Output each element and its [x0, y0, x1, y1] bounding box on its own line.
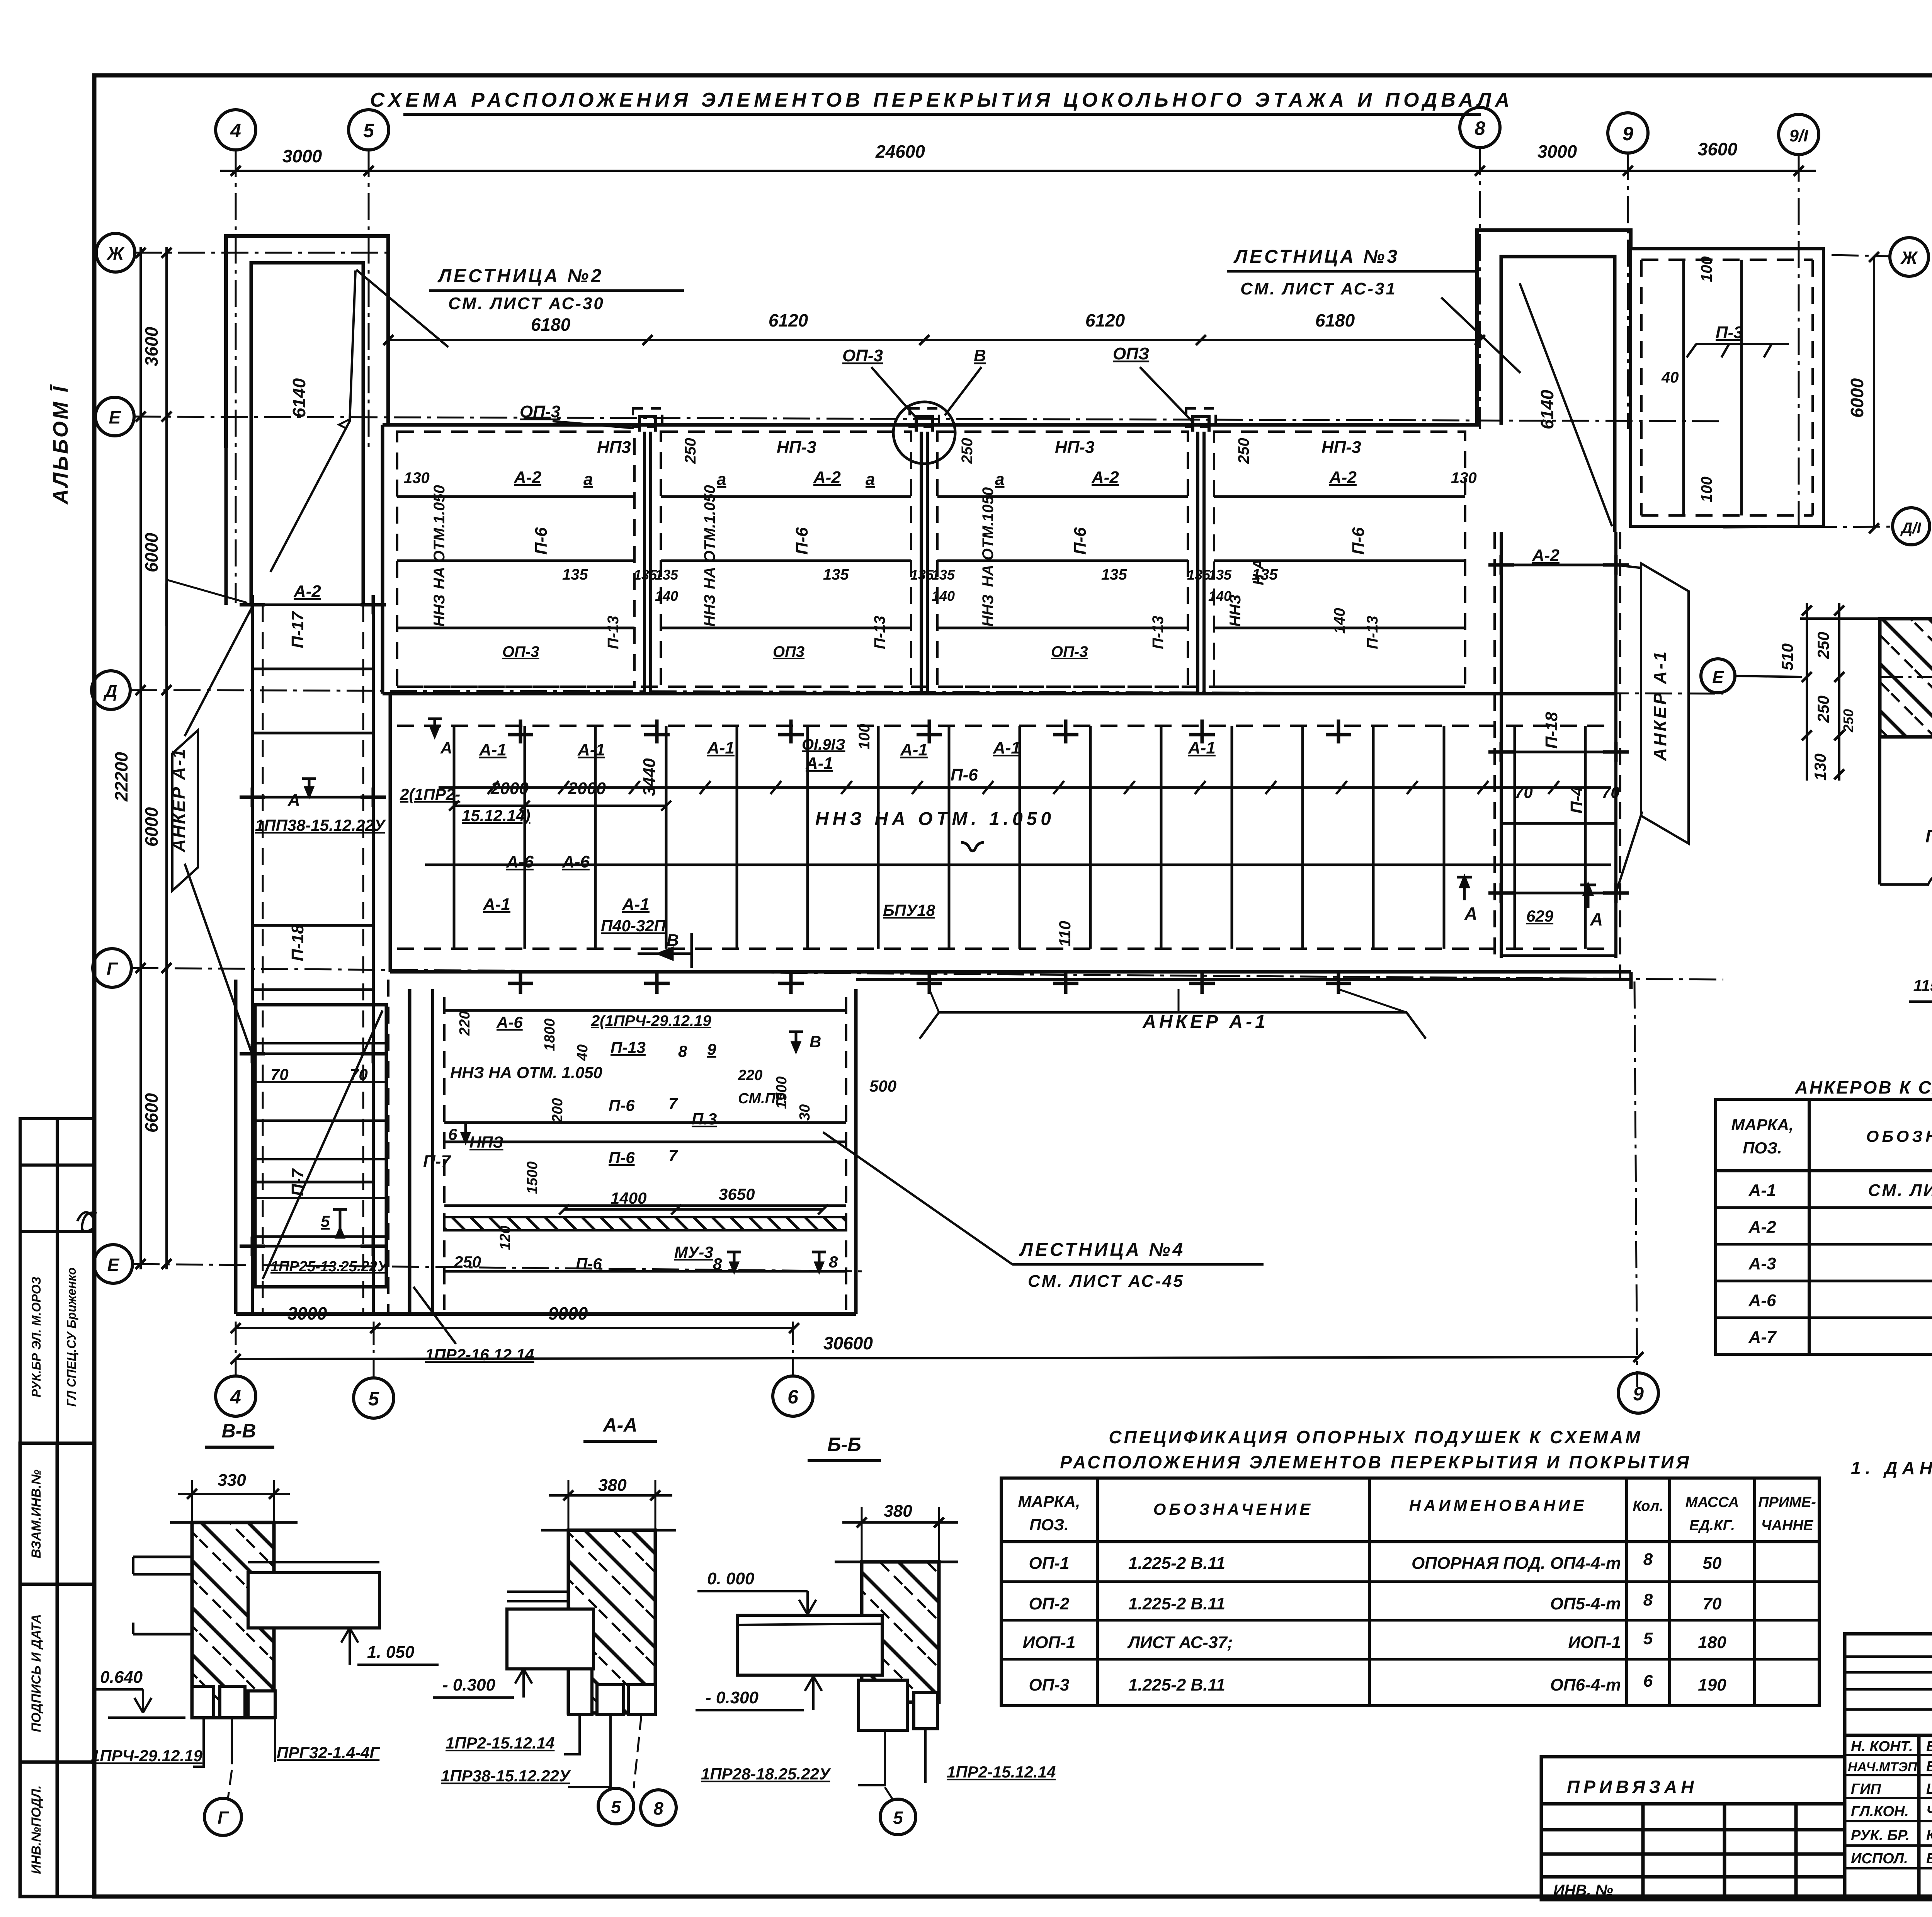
svg-text:ИНВ.№ПОДЛ.: ИНВ.№ПОДЛ.	[29, 1785, 44, 1874]
slab bottom break line	[1880, 877, 1932, 885]
svg-text:а: а	[866, 470, 875, 489]
detail B labels	[1925, 784, 1932, 949]
pads table header	[1018, 1492, 1816, 1534]
svg-text:П-13: П-13	[605, 616, 622, 649]
svg-text:9: 9	[1622, 123, 1633, 145]
circle G under V-V	[204, 1798, 241, 1835]
svg-text:180: 180	[1698, 1633, 1726, 1652]
svg-text:ЛЕСТНИЦА №3: ЛЕСТНИЦА №3	[1233, 247, 1400, 267]
svg-text:А: А	[287, 791, 300, 810]
svg-text:П-13: П-13	[871, 616, 888, 649]
svg-text:380: 380	[884, 1502, 912, 1521]
P-6 slab field dashed borders	[397, 725, 1607, 727]
svg-text:100: 100	[1698, 476, 1715, 502]
svg-text:6140: 6140	[1537, 390, 1557, 429]
title block frame	[1845, 1634, 1932, 1900]
svg-text:110: 110	[1056, 921, 1074, 947]
svg-text:100: 100	[1698, 256, 1715, 282]
field bottom wall	[390, 970, 1631, 974]
svg-text:А: А	[1464, 903, 1477, 924]
svg-text:А-2: А-2	[1748, 1218, 1776, 1237]
svg-text:ЕД.КГ.: ЕД.КГ.	[1689, 1517, 1735, 1534]
svg-text:НПЗ: НПЗ	[469, 1133, 503, 1151]
svg-text:7: 7	[668, 1094, 678, 1112]
hatched strip MU-3	[444, 1217, 846, 1230]
OP-3 connector symbols at band top	[639, 417, 1209, 432]
svg-text:8: 8	[1475, 117, 1485, 139]
svg-text:250: 250	[1840, 709, 1856, 733]
svg-text:40: 40	[575, 1044, 591, 1061]
band bottom wall (axis D)	[383, 692, 1616, 696]
svg-text:6600: 6600	[141, 1093, 162, 1133]
svg-text:МАРКА,: МАРКА,	[1731, 1116, 1793, 1134]
svg-text:А-2: А-2	[1532, 546, 1560, 565]
bottom dim line 3000 9000	[236, 1327, 794, 1329]
svg-text:140: 140	[1331, 608, 1348, 634]
svg-text:АНКЕРОВ К СХЕМАМ РАСПОЛОЖЕН: АНКЕРОВ К СХЕМАМ РАСПОЛОЖЕНИЯ ЭЛЕМЕНТОВ …	[1795, 1077, 1932, 1097]
svg-text:ОП-3: ОП-3	[520, 402, 560, 421]
anchors spec table grid	[1716, 1099, 1932, 1354]
svg-text:ИОП-1: ИОП-1	[1568, 1633, 1621, 1652]
svg-text:8: 8	[1643, 1550, 1653, 1569]
svg-text:ОП-2: ОП-2	[1029, 1594, 1070, 1613]
svg-text:0.640: 0.640	[100, 1668, 143, 1687]
svg-text:ОП-3: ОП-3	[1029, 1675, 1070, 1694]
svg-text:6180: 6180	[1315, 310, 1355, 330]
svg-text:5: 5	[893, 1808, 903, 1828]
svg-text:6180: 6180	[531, 315, 571, 335]
axis circle 5 top	[349, 110, 389, 150]
axis line Е	[134, 417, 1723, 421]
svg-text:6: 6	[787, 1386, 799, 1408]
svg-text:НА ОТМ.1050: НА ОТМ.1050	[980, 487, 997, 587]
svg-text:а: а	[583, 470, 593, 489]
svg-text:НАЧ.МТЭП: НАЧ.МТЭП	[1848, 1760, 1918, 1774]
svg-text:П-18: П-18	[1542, 712, 1561, 749]
svg-text:А-1: А-1	[577, 740, 605, 759]
svg-text:ГЛ.КОН.: ГЛ.КОН.	[1851, 1803, 1909, 1820]
svg-text:А-6: А-6	[562, 852, 590, 871]
svg-text:А: А	[440, 739, 452, 757]
right axis circle Ж	[1890, 238, 1929, 276]
svg-text:5: 5	[321, 1212, 330, 1230]
title block staff rows	[1848, 1738, 1932, 1867]
svg-text:П-13: П-13	[1364, 616, 1381, 649]
svg-text:ПРИМЕ-: ПРИМЕ-	[1758, 1494, 1816, 1510]
strip labels	[270, 582, 368, 1196]
svg-text:ГЛ СПЕЦ.СУ Бриженко: ГЛ СПЕЦ.СУ Бриженко	[65, 1267, 78, 1407]
svg-text:РАСПОЛОЖЕНИЯ ЭЛЕМЕНТОВ ПЕРЕК: РАСПОЛОЖЕНИЯ ЭЛЕМЕНТОВ ПЕРЕКРЫТИЯ И ПОКР…	[1060, 1452, 1691, 1472]
svg-text:А-7: А-7	[1748, 1328, 1777, 1347]
svg-text:9/I: 9/I	[1789, 126, 1809, 145]
svg-text:135: 135	[910, 567, 934, 583]
svg-text:130: 130	[1451, 469, 1477, 486]
svg-text:ННЗ НА ОТМ. 1.050: ННЗ НА ОТМ. 1.050	[450, 1063, 602, 1082]
left margin strip	[20, 1443, 94, 1897]
svg-text:70: 70	[270, 1065, 289, 1084]
svg-text:ИНВ. №: ИНВ. №	[1553, 1882, 1613, 1899]
svg-text:24600: 24600	[875, 141, 925, 162]
P-3 labels	[1661, 256, 1743, 502]
anchors table header text	[1731, 1112, 1932, 1170]
left axis circle Д	[92, 671, 130, 709]
svg-text:250: 250	[959, 438, 976, 464]
svg-text:- 0.300: - 0.300	[706, 1688, 759, 1707]
building bottom-right outline	[856, 978, 1631, 981]
svg-text:2(1ПР2-: 2(1ПР2-	[400, 785, 460, 803]
svg-text:1.225-2 В.11: 1.225-2 В.11	[1128, 1594, 1225, 1613]
panel slab joint lines	[397, 497, 1465, 628]
svg-text:П-6: П-6	[1925, 826, 1932, 846]
svg-text:ОП-1: ОП-1	[1029, 1554, 1070, 1573]
1400/3650 dim line	[564, 1208, 823, 1211]
left axis circle Е	[95, 397, 134, 436]
detail B left dims	[1806, 603, 1808, 781]
svg-text:Г: Г	[107, 959, 118, 979]
svg-text:3000: 3000	[1537, 141, 1577, 162]
svg-text:5: 5	[363, 120, 374, 141]
circle detail B on plan	[893, 402, 955, 464]
svg-text:3650: 3650	[719, 1185, 755, 1203]
svg-text:А-2: А-2	[293, 582, 321, 601]
svg-text:А-6: А-6	[496, 1013, 523, 1031]
svg-text:ОПЗ: ОПЗ	[1113, 344, 1149, 363]
svg-text:135: 135	[1208, 567, 1232, 583]
stair shaft N3 top-right	[1477, 230, 1631, 425]
svg-text:2000: 2000	[568, 779, 606, 798]
svg-text:НП-3: НП-3	[1055, 438, 1095, 457]
svg-text:510: 510	[1778, 643, 1796, 670]
svg-text:1800: 1800	[542, 1018, 558, 1051]
svg-text:8: 8	[713, 1255, 722, 1273]
band labels P3	[910, 438, 1167, 660]
svg-text:130: 130	[1811, 754, 1829, 781]
svg-text:П-7: П-7	[423, 1152, 451, 1171]
svg-text:АЛЬБОМ Ī: АЛЬБОМ Ī	[49, 384, 72, 505]
B-B slab	[737, 1615, 882, 1675]
field labels	[479, 724, 1603, 1032]
axis circle 4 top	[216, 110, 256, 150]
lower room labels	[450, 1011, 896, 1273]
top dim line 3000/24600/3000/3600	[220, 170, 1816, 172]
svg-text:НП3: НП3	[597, 438, 631, 457]
svg-text:Ж: Ж	[1900, 248, 1918, 268]
svg-text:ННЗ: ННЗ	[701, 594, 718, 626]
anchor tick T marks on strip	[240, 595, 386, 1256]
field long slab lines	[439, 786, 1611, 789]
right wall strip P-18	[1493, 532, 1496, 958]
svg-text:В: В	[810, 1032, 821, 1051]
svg-text:1500: 1500	[524, 1161, 541, 1194]
svg-text:135: 135	[932, 567, 955, 583]
svg-text:120: 120	[497, 1226, 514, 1250]
axis line 9/1	[1798, 155, 1800, 533]
svg-text:135: 135	[562, 566, 588, 583]
left axis circle Е lower	[94, 1245, 133, 1283]
svg-text:9: 9	[1633, 1383, 1644, 1405]
B-B wall	[862, 1562, 939, 1702]
pads spec table grid	[1001, 1478, 1819, 1706]
svg-text:А-2: А-2	[813, 468, 841, 487]
svg-text:РУК.БР ЭЛ. М.ОРОЗ: РУК.БР ЭЛ. М.ОРОЗ	[29, 1277, 43, 1397]
second dim line 6180/6120/6120/6180	[388, 339, 1480, 341]
svg-text:П-6: П-6	[1071, 527, 1090, 555]
svg-text:130: 130	[404, 469, 430, 486]
svg-text:5: 5	[611, 1797, 621, 1817]
svg-text:БУХАРИНА: БУХАРИНА	[1926, 1738, 1932, 1755]
svg-text:Е: Е	[1712, 668, 1724, 687]
A-A wall	[568, 1530, 655, 1713]
svg-text:140: 140	[655, 588, 678, 604]
svg-text:135: 135	[655, 567, 679, 583]
svg-text:50: 50	[1703, 1554, 1722, 1573]
svg-text:П-17: П-17	[288, 611, 307, 648]
svg-text:П-13: П-13	[1150, 616, 1167, 649]
svg-text:БЕГАНСКАЯ: БЕГАНСКАЯ	[1926, 1759, 1932, 1775]
2(1PR2-15.12.14) label	[400, 739, 530, 825]
svg-text:4: 4	[230, 120, 241, 141]
svg-text:П-6: П-6	[609, 1148, 635, 1167]
left axis circle Г	[93, 949, 131, 987]
B-B legs	[859, 1680, 907, 1730]
svg-text:140: 140	[1208, 588, 1231, 604]
svg-text:1.225-2 В.11: 1.225-2 В.11	[1128, 1675, 1225, 1694]
svg-text:ОПОРНАЯ ПОД. ОП4-4-т: ОПОРНАЯ ПОД. ОП4-4-т	[1412, 1554, 1621, 1573]
svg-text:СПЕЦИФИКАЦИЯ ОПОРНЫХ ПОДУШЕК: СПЕЦИФИКАЦИЯ ОПОРНЫХ ПОДУШЕК К СХЕМАМ	[1109, 1427, 1642, 1447]
stair N2 flight diagonal	[270, 270, 355, 572]
svg-text:МАССА: МАССА	[1685, 1494, 1739, 1510]
svg-text:ОБОЗНАЧЕНИЕ: ОБОЗНАЧЕНИЕ	[1866, 1127, 1932, 1145]
svg-text:70: 70	[1602, 783, 1620, 801]
svg-text:3600: 3600	[1698, 139, 1738, 159]
right strip labels	[1515, 546, 1620, 813]
svg-text:а: а	[717, 470, 726, 489]
svg-text:ЛЕСТНИЦА №2: ЛЕСТНИЦА №2	[437, 266, 604, 286]
svg-text:СМ. ЛИСТ АС-45: СМ. ЛИСТ АС-45	[1028, 1272, 1184, 1291]
stair shaft N2 top-left outer wall	[226, 236, 388, 448]
svg-text:Ж: Ж	[107, 243, 125, 264]
svg-text:В-В: В-В	[222, 1420, 256, 1442]
svg-text:П-18: П-18	[288, 924, 307, 961]
svg-text:ОП-3: ОП-3	[842, 346, 883, 365]
svg-text:- 0.300: - 0.300	[442, 1675, 496, 1694]
svg-text:6120: 6120	[769, 310, 808, 330]
svg-text:П-3: П-3	[1716, 323, 1743, 342]
svg-text:ЛИСТ АС-37;: ЛИСТ АС-37;	[1127, 1633, 1233, 1652]
lower room block	[431, 989, 434, 1314]
svg-text:Г: Г	[218, 1808, 229, 1828]
axis circle Д/1 right	[1893, 508, 1930, 545]
svg-text:40: 40	[1661, 369, 1679, 386]
bottom dim line 30600	[236, 1357, 1638, 1359]
svg-text:140: 140	[932, 588, 955, 604]
A-A legs	[568, 1669, 592, 1715]
svg-text:ИОП-1: ИОП-1	[1023, 1633, 1076, 1652]
svg-text:380: 380	[598, 1476, 627, 1495]
svg-text:А-6: А-6	[1748, 1291, 1776, 1310]
svg-text:П-6: П-6	[532, 527, 551, 555]
svg-text:6: 6	[1643, 1672, 1653, 1691]
svg-text:П-6: П-6	[951, 765, 978, 784]
svg-text:СМ. ЛИСТ АС-56: СМ. ЛИСТ АС-56	[1868, 1181, 1932, 1200]
svg-text:30600: 30600	[823, 1333, 873, 1353]
svg-text:135: 135	[1101, 566, 1127, 583]
svg-text:9: 9	[707, 1040, 716, 1058]
leader from A-2 to anchors	[166, 580, 247, 626]
svg-text:МУ-3: МУ-3	[674, 1243, 713, 1261]
svg-text:НП-3: НП-3	[777, 438, 816, 457]
svg-text:629: 629	[1526, 907, 1554, 925]
P-3 joints	[1684, 260, 1742, 515]
svg-text:5: 5	[1643, 1629, 1653, 1648]
svg-text:1ПР25-13.25.22У: 1ПР25-13.25.22У	[270, 1259, 389, 1275]
svg-text:НА ОТМ.1.050: НА ОТМ.1.050	[701, 485, 718, 589]
axis line 4	[235, 150, 237, 603]
svg-text:ННЗ НА ОТМ. 1.050: ННЗ НА ОТМ. 1.050	[815, 809, 1055, 829]
svg-text:ГИП: ГИП	[1851, 1781, 1881, 1797]
svg-text:Е: Е	[109, 407, 121, 427]
V-V left slab	[133, 1557, 192, 1634]
partition walls between panels	[645, 432, 1204, 694]
svg-text:200: 200	[549, 1098, 566, 1123]
svg-text:А-А: А-А	[602, 1414, 638, 1436]
axis line Г	[131, 968, 1723, 980]
band labels P1	[404, 402, 631, 660]
svg-text:250: 250	[1814, 696, 1832, 723]
svg-text:П-6: П-6	[1349, 527, 1368, 555]
svg-text:А-1: А-1	[622, 895, 650, 914]
svg-text:ОП-3: ОП-3	[502, 643, 539, 660]
svg-text:В: В	[974, 346, 986, 365]
svg-text:НАИМЕНОВАНИЕ: НАИМЕНОВАНИЕ	[1409, 1496, 1587, 1514]
axis line Ж	[135, 252, 390, 254]
axis circle 9 top	[1608, 113, 1648, 153]
axis line Е lower	[133, 1264, 862, 1271]
svg-text:АНКЕР А-1: АНКЕР А-1	[1650, 650, 1670, 761]
svg-text:МАРКА,: МАРКА,	[1018, 1492, 1080, 1510]
svg-text:22200: 22200	[111, 752, 131, 802]
axis line 8	[1479, 148, 1481, 429]
svg-text:ЧЕРНЕЦКИЙ: ЧЕРНЕЦКИЙ	[1926, 1802, 1932, 1820]
svg-text:250: 250	[1235, 438, 1252, 464]
svg-text:ОП3: ОП3	[773, 643, 804, 660]
svg-text:4: 4	[230, 1386, 241, 1408]
svg-text:ПРИВЯЗАН: ПРИВЯЗАН	[1567, 1777, 1697, 1797]
svg-text:ПОДПИСЬ И ДАТА: ПОДПИСЬ И ДАТА	[29, 1614, 44, 1732]
svg-text:А-1: А-1	[993, 738, 1020, 757]
svg-text:190: 190	[1698, 1675, 1726, 1694]
svg-text:135: 135	[1187, 567, 1211, 583]
detail B wall	[1880, 619, 1932, 737]
svg-text:6000: 6000	[141, 532, 162, 572]
lower-left stair shaft N4	[234, 980, 238, 1314]
svg-text:3000: 3000	[282, 146, 322, 166]
svg-text:СХЕМА РАСПОЛОЖЕНИЯ ЭЛЕМЕНТОВ: СХЕМА РАСПОЛОЖЕНИЯ ЭЛЕМЕНТОВ ПЕРЕКРЫТИЯ …	[370, 89, 1514, 111]
svg-text:ННЗ: ННЗ	[980, 594, 997, 626]
svg-text:1.225-2 В.11: 1.225-2 В.11	[1128, 1554, 1225, 1573]
svg-text:Д/I: Д/I	[1900, 520, 1921, 537]
svg-text:1. 050: 1. 050	[367, 1643, 415, 1662]
svg-text:6000: 6000	[141, 807, 162, 847]
svg-text:ШЕЛЕЕНАЯ: ШЕЛЕЕНАЯ	[1926, 1781, 1932, 1797]
axis circle 8 top	[1460, 107, 1500, 148]
svg-text:ОП6-4-т: ОП6-4-т	[1550, 1675, 1621, 1694]
svg-text:КОЛУШЕВА: КОЛУШЕВА	[1926, 1827, 1932, 1844]
svg-text:А-2: А-2	[1329, 468, 1357, 487]
axis circle 9/1 top	[1779, 114, 1819, 155]
svg-text:А-1: А-1	[707, 738, 735, 757]
svg-text:Н. КОНТ.: Н. КОНТ.	[1851, 1738, 1913, 1755]
svg-text:ПОЗ.: ПОЗ.	[1743, 1139, 1782, 1157]
svg-text:А-6: А-6	[506, 852, 534, 871]
svg-text:А-1: А-1	[1748, 1181, 1776, 1200]
svg-text:1ПП38-15.12.22У: 1ПП38-15.12.22У	[255, 816, 386, 834]
V-V right slab	[248, 1573, 379, 1628]
svg-text:ЛЕСТНИЦА №4: ЛЕСТНИЦА №4	[1019, 1240, 1185, 1260]
svg-text:ΟΙ.9ΙЗ: ΟΙ.9ΙЗ	[802, 736, 845, 753]
svg-text:СМ. ЛИСТ АС-30: СМ. ЛИСТ АС-30	[448, 294, 605, 313]
svg-text:500: 500	[869, 1077, 896, 1095]
svg-text:1400: 1400	[611, 1189, 646, 1207]
panel P1	[397, 432, 1465, 687]
svg-text:ВОЛЬФЛЕНОК: ВОЛЬФЛЕНОК	[1926, 1851, 1932, 1867]
section A arrows in field	[1457, 877, 1472, 900]
svg-text:А-2: А-2	[514, 468, 541, 487]
svg-text:1ПР2-15.12.14: 1ПР2-15.12.14	[446, 1734, 554, 1752]
svg-text:70: 70	[1703, 1594, 1722, 1613]
svg-text:П-6: П-6	[576, 1255, 602, 1273]
svg-text:а: а	[995, 470, 1004, 489]
svg-text:А-3: А-3	[1748, 1254, 1776, 1273]
svg-text:Д: Д	[103, 681, 117, 701]
bottom axis circles	[216, 1376, 256, 1416]
svg-text:ОП5-4-т: ОП5-4-т	[1550, 1594, 1621, 1613]
svg-text:ОП-3: ОП-3	[1051, 643, 1088, 660]
svg-text:100: 100	[856, 724, 873, 750]
svg-text:3440: 3440	[640, 758, 659, 796]
svg-text:Б-Б: Б-Б	[827, 1434, 861, 1455]
svg-text:1ПР2-16.12.14: 1ПР2-16.12.14	[425, 1345, 534, 1364]
left wall strip of panels P-17/P-18/P-7	[252, 605, 373, 1314]
P-6 field slab joints	[454, 726, 1585, 949]
svg-text:250: 250	[454, 1253, 481, 1271]
band labels P2	[634, 438, 888, 660]
svg-text:НА ОТМ.1.050: НА ОТМ.1.050	[431, 485, 448, 589]
anchor A-1 bracket	[920, 1012, 1426, 1039]
anchor A-1 parallelogram right	[1641, 563, 1689, 844]
svg-text:БПУ18: БПУ18	[883, 901, 935, 919]
svg-text:330: 330	[218, 1471, 246, 1490]
left axis circle Ж	[96, 233, 135, 272]
svg-text:СМ. ЛИСТ АС-31: СМ. ЛИСТ АС-31	[1240, 279, 1397, 298]
svg-text:П-6: П-6	[793, 527, 811, 555]
svg-text:П.3: П.3	[692, 1110, 717, 1128]
svg-text:220: 220	[738, 1067, 762, 1084]
privyazan box	[1541, 1757, 1845, 1900]
svg-text:1. ДАННЫЙ ЛИСТ СМ. СОВМЕСТНО: 1. ДАННЫЙ ЛИСТ СМ. СОВМЕСТНО С ЛИСТАМИ А…	[1851, 1458, 1932, 1478]
svg-text:ННЗ: ННЗ	[431, 594, 448, 626]
axis line 9	[1627, 153, 1629, 429]
svg-text:П-7: П-7	[288, 1168, 307, 1196]
svg-text:Кол.: Кол.	[1633, 1498, 1663, 1514]
detail B slabs P-6	[1880, 735, 1932, 739]
P-3 panel top right	[1631, 249, 1823, 526]
svg-text:П-13: П-13	[611, 1038, 646, 1056]
V-V wall	[192, 1522, 274, 1718]
svg-text:А-1: А-1	[900, 740, 928, 759]
svg-text:ПРГ32-1.4-4Г: ПРГ32-1.4-4Г	[277, 1744, 380, 1762]
svg-text:135: 135	[1252, 566, 1278, 583]
